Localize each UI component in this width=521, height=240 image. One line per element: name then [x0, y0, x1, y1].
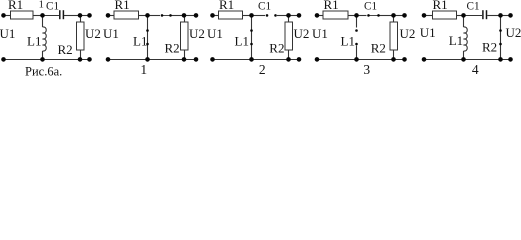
svg-text:L1: L1: [341, 33, 355, 48]
placeholder pin dot upper (E R2 branch): [499, 29, 502, 32]
wire R1 to node (C): [243, 15, 253, 17]
junction R2-bottom (A): [78, 57, 83, 62]
resistor R1 (D): [323, 11, 348, 19]
wire top-left E: [424, 15, 433, 17]
placeholder pin dot upper (D L1 branch): [355, 29, 358, 32]
svg-text:1: 1: [140, 62, 147, 77]
svg-text:U2: U2: [400, 26, 416, 41]
input terminal top (A): [1, 13, 6, 18]
placeholder pin dot right (D top, C1): [377, 14, 380, 17]
resistor R1 (B): [114, 11, 139, 19]
bottom rail (E): [424, 59, 511, 61]
svg-text:4: 4: [472, 62, 479, 77]
wire top-left B: [108, 15, 114, 17]
input terminal bottom (E): [422, 57, 427, 62]
placeholder pin dot upper (C L1 branch): [250, 29, 253, 32]
wire node1 to capacitor C1 (A): [43, 15, 60, 17]
svg-text:C1: C1: [46, 0, 59, 12]
input terminal top (D): [315, 13, 320, 18]
svg-text:R1: R1: [115, 0, 130, 12]
placeholder pin dot lower (B L1 branch): [146, 43, 149, 46]
wire R1 to node 1 (A): [33, 15, 43, 17]
wire node to output terminal (D): [394, 15, 405, 17]
svg-text:U1: U1: [420, 25, 436, 40]
L1 placeholder branch (D) with gap: [356, 15, 358, 28]
input terminal bottom (D): [315, 57, 320, 62]
svg-text:R2: R2: [269, 41, 284, 56]
placeholder pin dot left (D top, C1): [367, 14, 370, 17]
wire R1 to node (B): [139, 15, 148, 17]
junction node 1 (A): [40, 13, 45, 18]
input terminal top (C): [210, 13, 215, 18]
placeholder pin dot left (B top): [161, 14, 164, 17]
capacitor C1 (A) plates: [59, 10, 61, 19]
svg-text:R1: R1: [433, 0, 448, 12]
placeholder pin dot right (B top): [169, 14, 172, 17]
bottom rail (C): [213, 59, 300, 61]
svg-text:Рис.6а.: Рис.6а.: [25, 64, 62, 78]
placeholder pin dot upper (B L1 branch): [146, 29, 149, 32]
input terminal bottom (A): [1, 57, 6, 62]
junction node after R1 (D): [354, 13, 359, 18]
output terminal top (E): [508, 13, 513, 18]
svg-text:3: 3: [363, 62, 370, 77]
wire node to output terminal (B): [184, 15, 196, 17]
resistor R2 (A) shunt branch: [80, 15, 82, 22]
wire with placeholder dots (B top): [148, 15, 161, 17]
junction node after R1 (B): [145, 13, 150, 18]
junction R2-bottom (B): [182, 57, 187, 62]
svg-text:U1: U1: [207, 26, 223, 41]
junction R2-bottom (E): [498, 57, 503, 62]
output terminal bottom (D): [402, 57, 407, 62]
junction R2-bottom (C): [286, 57, 291, 62]
junction L1-bottom (E): [461, 57, 466, 62]
svg-text:L1: L1: [449, 33, 463, 48]
svg-text:U2: U2: [85, 26, 101, 41]
output terminal top (B): [194, 13, 199, 18]
junction node R2-top (C): [286, 13, 291, 18]
svg-text:R2: R2: [482, 40, 497, 55]
wire R1 to node (E): [457, 15, 465, 17]
svg-text:U2: U2: [294, 26, 310, 41]
svg-text:U2: U2: [189, 26, 205, 41]
output terminal bottom (C): [297, 57, 302, 62]
output terminal top (A): [87, 13, 92, 18]
capacitor C1 (E) plates: [482, 10, 484, 19]
input terminal top (B): [106, 13, 111, 18]
resistor R2 (C) shunt branch: [288, 15, 290, 22]
wire with placeholder dots C1 (D top): [357, 15, 367, 17]
output terminal bottom (E): [508, 57, 513, 62]
inductor L1 (E) shunt branch: [463, 15, 465, 27]
junction R2-bottom (D): [391, 57, 396, 62]
svg-text:U1: U1: [312, 26, 328, 41]
svg-text:2: 2: [259, 62, 266, 77]
svg-text:C1: C1: [364, 0, 377, 12]
junction L1-bottom (B): [145, 57, 150, 62]
svg-text:R1: R1: [219, 0, 234, 12]
svg-text:R1: R1: [324, 0, 339, 12]
junction node 2 (A): [78, 13, 83, 18]
L1 placeholder branch (B): [147, 15, 149, 60]
input terminal bottom (B): [106, 57, 111, 62]
resistor R2 (D) shunt branch: [393, 15, 395, 22]
svg-text:R2: R2: [371, 41, 386, 56]
L1 placeholder branch (C): [251, 15, 253, 60]
placeholder pin dot right (C top, C1): [274, 14, 277, 17]
wire top-left D: [317, 15, 323, 17]
wire with placeholder gap C1 (C top): [252, 15, 265, 17]
inductor L1 (A) shunt branch: [42, 15, 44, 27]
wire C1 to node 2 (A): [64, 15, 80, 17]
junction node after R1 (C): [249, 13, 254, 18]
input terminal bottom (C): [210, 57, 215, 62]
wire node to output terminal (C): [289, 15, 300, 17]
wire node to output terminal (E): [501, 15, 511, 17]
resistor R1 (A): [11, 11, 34, 19]
output terminal bottom (B): [194, 57, 199, 62]
svg-text:C1: C1: [467, 0, 480, 12]
output terminal top (C): [297, 13, 302, 18]
input terminal top (E): [422, 13, 427, 18]
svg-text:R2: R2: [165, 40, 180, 55]
svg-text:L1: L1: [235, 33, 249, 48]
wire R1 to node (D): [348, 15, 357, 17]
placeholder pin dot lower (C L1 branch): [250, 43, 253, 46]
svg-text:R2: R2: [58, 42, 73, 57]
bottom rail (D): [317, 59, 405, 61]
placeholder pin dot lower (D L1 branch): [355, 43, 358, 46]
bottom rail (B): [108, 59, 196, 61]
junction L1-bottom (D): [354, 57, 359, 62]
R2 placeholder branch (E): [500, 15, 502, 60]
svg-text:U1: U1: [0, 26, 15, 41]
svg-text:L1: L1: [133, 33, 147, 48]
svg-text:L1: L1: [27, 33, 41, 48]
svg-text:1: 1: [39, 0, 44, 11]
resistor R2 (B) shunt branch: [184, 15, 186, 22]
wire node2 to output terminal (A): [80, 15, 90, 17]
junction node R2-top (B): [182, 13, 187, 18]
output terminal top (D): [402, 13, 407, 18]
wire top-left A: [4, 15, 11, 17]
junction L1-bottom (C): [249, 57, 254, 62]
resistor R1 (E): [433, 11, 457, 19]
placeholder pin dot left (C top, C1): [266, 14, 269, 17]
junction L1-bottom (A): [40, 57, 45, 62]
svg-text:R1: R1: [8, 0, 23, 12]
junction node R2-top (D): [391, 13, 396, 18]
output terminal bottom (A): [87, 57, 92, 62]
resistor R1 (C): [219, 11, 243, 19]
junction node after R1 (E): [461, 13, 466, 18]
wire node to capacitor C1 (E): [464, 15, 482, 17]
svg-text:C1: C1: [258, 0, 271, 12]
placeholder pin dot lower (E R2 branch): [499, 43, 502, 46]
svg-text:U1: U1: [103, 26, 119, 41]
junction node after C1 (E): [498, 13, 503, 18]
wire C1 to node (E): [487, 15, 501, 17]
bottom rail (A): [4, 59, 90, 61]
wire top-left C: [213, 15, 219, 17]
svg-text:U2: U2: [506, 25, 521, 40]
